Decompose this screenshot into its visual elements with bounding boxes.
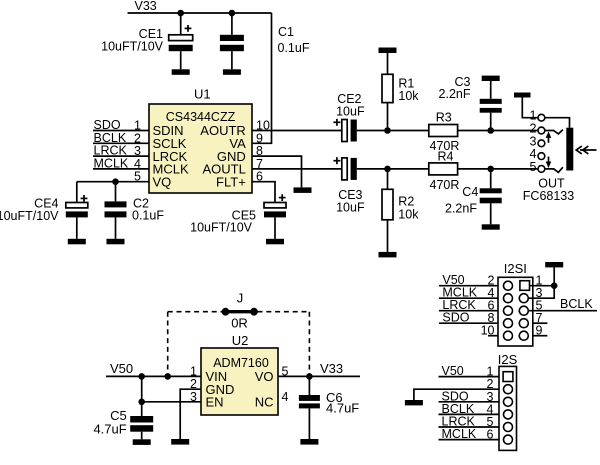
wire U1 pin 7 AOUTL to CE3 [252,168,341,170]
pin number 10 [256,119,270,133]
svg-text:MCLK: MCLK [94,156,129,170]
ground above C3 [482,76,500,81]
BCLK node label at I2S [442,402,475,416]
ground below CE4 [68,239,86,245]
svg-text:R3: R3 [436,111,452,125]
ground below C4 [482,224,500,229]
wire I2SI pin 1 to ground [530,285,555,287]
LRCK node label at I2S [442,415,476,429]
wire U2 pin 5 VO to V33 [278,375,360,377]
R4 value label [430,178,460,192]
svg-text:U1: U1 [194,87,211,102]
junction EN / C5 [138,399,145,406]
C3 value label [439,75,471,101]
MCLK node label [442,286,477,300]
jack pin number 1 [530,109,537,123]
wire SDO to I2SI pin 8 [439,322,498,324]
pin number 8 [256,144,263,158]
jack switch arrow pin 4 [546,157,552,168]
svg-text:4: 4 [282,390,289,404]
wire V50 to U2 pin 1 VIN [106,375,201,377]
ground below C5 [133,439,151,445]
svg-text:0.1uF: 0.1uF [132,209,164,223]
I2SI pin number 7 [536,311,543,325]
ground at I2SI [545,262,563,267]
wire BCLK to I2S pin 4 [439,413,500,415]
wire CE2 to R3 [357,130,429,132]
plug insertion arrow [576,146,596,154]
pin number 2 [134,131,141,145]
ground below CE5 [266,239,284,245]
ground at jack pin 1 [514,93,531,98]
svg-text:6: 6 [487,428,494,442]
C1 value label [278,25,310,55]
capacitor C4 [480,169,502,224]
junction I2SI ground [551,282,558,289]
svg-text:4.7uF: 4.7uF [326,400,359,415]
svg-text:J: J [237,291,244,306]
junction VO / C6 [306,373,313,380]
svg-text:I2S: I2S [498,352,518,367]
CE2 value label [336,92,365,119]
svg-text:ADM7160: ADM7160 [213,356,269,370]
junction VQ / C2 [112,178,119,185]
capacitor CE4 [66,182,88,239]
U2 reference label [232,333,249,348]
svg-text:FC68133: FC68133 [523,189,574,203]
capacitor CE5 [264,194,286,239]
ground below C6 [300,439,318,445]
wire R3 to jack pin 2 [458,130,538,132]
CE5 value label [190,208,256,234]
node MCLK [94,156,129,170]
U2 pin number 4 [282,390,289,404]
wire V33 rail [128,12,272,14]
J value label [231,315,248,330]
svg-text:0R: 0R [231,315,248,330]
I2SI pin number 10 [481,324,495,338]
svg-text:EN: EN [206,395,224,410]
I2S pin number 1 [487,365,494,379]
capacitor CE3 [333,157,356,180]
U2 pin number 2 [190,377,197,391]
V33 net label at U2 [320,361,343,376]
svg-text:V50: V50 [110,361,133,376]
jumper J dashed net [168,312,310,374]
SDO node label [442,311,469,325]
svg-text:10uFT/10V: 10uFT/10V [190,221,253,235]
ground below C1 [223,69,241,75]
I2SI pin number 9 [536,324,543,338]
V50 node label [442,273,464,287]
wire MCLK to I2S pin 6 [439,439,500,441]
wire SDO stub to pin 1 [93,130,149,132]
wire V33 to U1 pin 9 VA [252,13,272,143]
jack pin number 5 [530,160,537,174]
svg-text:10k: 10k [398,89,419,103]
MCLK node label at I2S [442,427,477,441]
wire junction up to ground [553,267,555,285]
ground above R1 [379,48,397,54]
wire U1 pin 6 FLT+ to CE5 [252,182,275,202]
node SDO [94,118,121,132]
svg-text:10uF: 10uF [336,104,365,118]
I2SI pin 7 stub [533,322,548,324]
wire CE3 to R4 [357,168,429,170]
jack pin number 2 [530,122,537,136]
svg-text:SDO: SDO [442,311,469,325]
CE4 value label [0,196,59,223]
I2SI pin number 6 [488,299,495,313]
IC U1 CS4344CZZ [149,104,252,193]
ground below CE1 [172,69,190,75]
C4 value label [445,185,478,215]
I2S pin number 4 [487,402,494,416]
R2 value label [398,195,419,222]
R1 value label [398,77,419,104]
svg-text:9: 9 [536,324,543,338]
capacitor C6 [299,376,320,439]
wire U2 pin 3 EN to V50 branch [142,401,201,403]
capacitor C3 [480,81,502,131]
pin number 3 [134,144,141,158]
C6 value label [326,390,359,415]
BCLK node label [560,297,593,311]
capacitor C5 [130,416,153,439]
capacitor CE2 [333,119,356,142]
svg-text:470R: 470R [430,178,460,192]
svg-text:C4: C4 [462,185,478,199]
I2SI pin number 3 [536,286,543,300]
V50 net label [110,361,133,376]
wire jack pin 1 to sleeve [545,118,570,128]
connector I2S header [499,366,517,450]
svg-text:I2SI: I2SI [504,261,527,276]
pin number 7 [256,157,263,171]
pin number 6 [256,170,263,184]
svg-text:10uF: 10uF [336,201,365,215]
I2SI pin number 4 [488,286,495,300]
jack sleeve bar [566,128,573,171]
wire U1 pin 10 AOUTR to CE2 [252,130,341,132]
wire BCLK stub to pin 2 [93,142,149,144]
R3 value label [430,139,460,153]
capacitor C1 [220,13,244,69]
U2 pin number 1 [190,364,197,378]
junction R1 node [384,127,391,134]
I2SI pin number 1 [536,274,543,288]
C2 value label [132,196,164,222]
wire I2S pin 2 to ground [414,389,499,400]
wire ground to jack pin 1 [522,98,538,118]
svg-text:MCLK: MCLK [442,427,477,441]
V50 node label at I2S [442,364,464,378]
wire V50 to I2S pin 1 [439,376,500,378]
svg-text:FLT+: FLT+ [216,174,246,189]
svg-text:V50: V50 [442,364,464,378]
junction R2 node [384,166,391,173]
U2 pin number 5 [282,364,289,378]
pin number 9 [256,131,263,145]
svg-text:10uFT/10V: 10uFT/10V [101,39,164,53]
jumper J 0R [222,308,258,316]
svg-text:BCLK: BCLK [560,297,593,311]
ground below C2 [107,239,125,245]
wire V50 to I2SI pin 2 [439,285,498,287]
J reference label [237,291,244,306]
OUT connector label [523,176,574,203]
svg-text:0.1uF: 0.1uF [278,41,310,55]
connector OUT FC68133 jack [538,114,545,172]
wire I2SI pin 5 BCLK [528,310,597,312]
svg-text:V33: V33 [135,0,157,13]
I2SI pin number 2 [488,274,495,288]
node LRCK [94,144,128,158]
capacitor CE1 [169,13,193,69]
C5 value label [93,408,126,437]
I2SI pin 10 stub [488,335,498,337]
wire LRCK stub to pin 3 [93,155,149,157]
LRCK node label [442,298,476,312]
pin number 4 [134,157,141,171]
junction C3 node [487,127,494,134]
wire MCLK stub to pin 4 [93,168,149,170]
svg-text:2.2nF: 2.2nF [445,202,477,216]
svg-text:10: 10 [481,324,495,338]
jack tip contact hook pin 2 [545,130,563,134]
svg-text:NC: NC [255,395,274,410]
SDO node label at I2S [442,389,469,403]
U2 pin number 3 [190,390,197,404]
wire LRCK to I2S pin 5 [439,426,500,428]
IC U2 ADM7160 [201,348,278,415]
capacitor C2 [105,182,127,239]
svg-text:V33: V33 [320,361,343,376]
resistor R1 [382,53,393,131]
jack pin number 4 [530,147,537,161]
svg-text:R4: R4 [438,149,454,163]
I2S pin number 2 [487,377,494,391]
jack pin number 3 [530,134,537,148]
svg-text:VQ: VQ [153,174,172,189]
resistor R2 [382,169,393,252]
jack ring contact hook pin 5 [545,167,563,172]
resistor R3 [429,125,458,137]
svg-text:C1: C1 [278,25,294,39]
svg-text:4.7uF: 4.7uF [93,421,126,436]
svg-text:5: 5 [530,160,537,174]
svg-text:10k: 10k [398,207,419,221]
junction on rail at C1 [229,10,236,17]
wire V50 branch down [141,376,143,416]
ground at I2S pin 2 [405,400,423,405]
junction V50 / jumper [164,373,171,380]
svg-text:VO: VO [255,369,274,384]
I2SI pin number 5 [536,299,543,313]
svg-text:2.2nF: 2.2nF [439,87,471,101]
V33 power net label [135,0,157,13]
R3 reference label [436,111,452,125]
U1 reference label [194,87,211,102]
ground at U2 GND [171,439,189,445]
resistor R4 [429,163,458,175]
junction on rail at CE1 [177,10,184,17]
wire U1 pin 8 GND to ground [252,156,302,187]
I2S pin number 5 [487,415,494,429]
jack switch arrow pin 3 [546,131,552,142]
pin number 1 [134,119,141,133]
ground below R2 [379,252,397,258]
node BCLK [94,131,127,145]
I2S pin number 3 [487,390,494,404]
wire U2 pin 2 GND to ground [180,389,201,439]
wire MCLK to I2SI pin 4 [439,297,498,299]
wire SDO to I2S pin 3 [439,401,500,403]
I2S reference label [498,352,518,367]
junction V50 / C5 branch [138,373,145,380]
junction C4 node [487,166,494,173]
ground at U1 pin 8 [294,187,312,193]
R4 reference label [438,149,454,163]
I2SI reference label [504,261,527,276]
I2SI pin number 8 [488,311,495,325]
wire LRCK to I2SI pin 6 [439,310,498,312]
I2SI pin 9 stub [533,335,548,337]
wire R4 to jack pin 5 [458,168,538,170]
svg-text:CS4344CZZ: CS4344CZZ [166,110,236,124]
pin number 5 [134,170,141,184]
wire I2SI pin 3 to ground junction [528,286,554,299]
wire U1 pin 5 VQ to decoupling [77,181,149,183]
CE1 value label [101,27,164,54]
CE3 value label [336,188,365,215]
svg-text:10uFT/10V: 10uFT/10V [0,209,59,223]
connector I2SI header [498,277,533,346]
I2S pin number 6 [487,428,494,442]
svg-text:U2: U2 [232,333,249,348]
